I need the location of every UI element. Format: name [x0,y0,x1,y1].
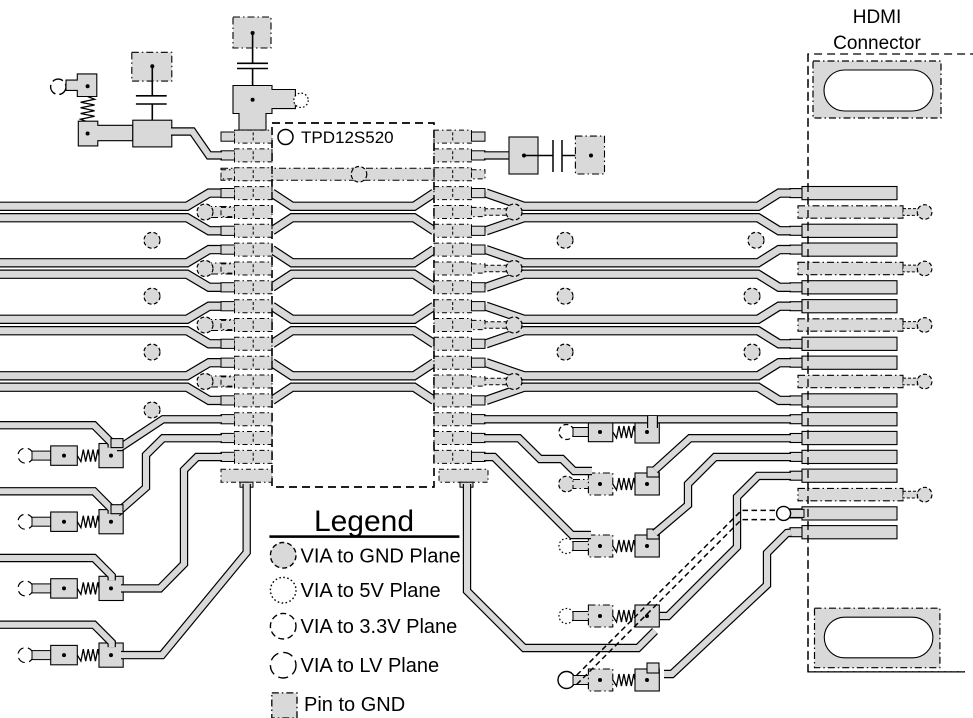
capacitor C1 top pad (to GND) [132,52,172,81]
pad step net2 [647,467,659,477]
wire diff pair 3 left P [0,306,221,319]
wire diff pair 3 inside IC P [272,306,434,319]
pin row 14 right [434,394,485,407]
pad bar GND pair 4 right [484,378,508,385]
wire IC row15 to HDMI pin13 [484,415,791,423]
resistor net 3 [613,540,635,552]
wire diff pair 1 left N [0,218,221,231]
wire diff pair 2 right P [486,250,791,263]
wire via to pad net 5 [573,676,592,685]
via GND stitch [744,288,760,304]
HDMI pin 10 pad [790,356,897,369]
via HDMI pin 2 [917,205,932,220]
pin row 6 left [221,243,272,256]
resistor net 1 left pad [588,422,612,441]
wire diff pair 3 inside IC N [272,331,434,344]
via GND pair 2 right funnel [506,261,522,277]
wire diff pair 2 inside IC P [272,250,434,263]
pin row 13 right [434,375,485,388]
wire diff pair 4 left P [0,363,221,376]
pad step net3 [647,529,659,539]
svg-text:HDMI: HDMI [853,7,902,28]
capacitor C3 right pad (to GND) [575,136,604,174]
resistor net 3 right pad [635,535,659,557]
pad bar GND pair 1 left [205,207,235,218]
resistor net C left pad [51,579,78,598]
via LV net D [18,648,33,663]
via GND stitch [144,232,160,248]
pin row 9 right [434,300,485,313]
wire net5 to HDMI pin19 [664,533,791,674]
pin row 5 left [221,224,272,237]
wire diff pair 4 left N [0,387,221,400]
resistor net B right pad [99,510,123,534]
legend item VIA to 5V Plane [270,577,440,603]
HDMI pin 13 pad [790,413,897,426]
wire via to pad net A [32,451,51,460]
HDMI pin 5 pad (to via) [798,262,918,274]
pin row 7 right [434,262,485,275]
resistor net 4 [613,610,635,622]
via GND stitch [744,344,760,360]
wire diff pair 3 left N [0,331,221,344]
resistor net D left pad [51,645,78,664]
HDMI connector outline overlay [808,54,965,672]
pad bar GND pair 3 left [205,320,235,331]
resistor net D right pad [99,643,123,667]
pin row 8 left [221,281,272,294]
HDMI connector outline [808,54,973,672]
HDMI pin 6 pad [790,281,897,294]
legend title [269,505,459,538]
pad bar GND row2 across IC [221,168,471,180]
legend item VIA to 3.3V Plane [270,613,457,639]
wire net1 to pin13 line [647,416,658,428]
resistor net 4 left pad [588,605,612,627]
resistor net 4 right pad [635,605,659,627]
pin row 12 right [434,356,485,369]
pad bar GND pair 3 right [484,322,508,329]
pin row 9 left [221,300,272,313]
wire diff pair 4 inside IC N [272,387,434,400]
pin row 2 left [221,168,272,181]
resistor net 5 right pad [635,669,659,691]
wire IC row16 to net2 [484,438,592,471]
resistor net 5 left pad [588,669,612,691]
via LV net B [18,514,33,529]
wire net2 to HDMI pin14 [655,438,791,470]
HDMI pin 17 pad (to via) [798,488,918,500]
wire net C to pin row17 [121,457,222,588]
resistor net A [77,450,99,462]
pad bar GND pair 2 left [205,263,235,274]
via GND pair 1 left funnel [197,204,213,220]
wire via to pad net 2 [573,480,592,489]
pin row 18 right (wide GND bar) [439,469,488,487]
wire left edge to net B [0,491,112,513]
capacitor C2 [237,33,268,100]
pin row 7 left [221,262,272,275]
via GND stitch [144,344,160,360]
HDMI pin 12 pad [790,394,897,407]
wire left edge to net D [0,625,112,647]
resistor net B [77,516,99,528]
via 3.3V net 1 [559,425,574,440]
resistor net D [77,649,99,661]
via GND stitch [144,288,160,304]
wire via to pad net B [32,517,51,526]
pin row 3 left [221,187,272,200]
wire diff pair 1 inside IC N [272,218,434,231]
resistor net 2 [613,478,635,490]
pin row 4 left [221,206,272,219]
legend item Pin to GND [272,693,405,718]
HDMI pin 18 pad [790,507,897,520]
via LV net C [18,581,33,596]
svg-text:Connector: Connector [833,33,921,54]
pin row 0 right [434,130,485,143]
wire via to pad net 3 [573,542,592,551]
wire diff pair 2 left N [0,274,221,287]
pin row 1 left [221,149,272,162]
resistor net C [77,582,99,594]
svg-text:TPD12S520: TPD12S520 [301,128,394,147]
pin row 11 left [221,337,272,350]
HDMI pin 16 pad [790,469,897,482]
pad bar GND pair 4 left [205,376,235,387]
pin row 1 right [434,149,485,162]
pin row 0 left [221,130,272,143]
capacitor C1 [136,66,167,134]
resistor net B left pad [51,512,78,531]
wire net3 to HDMI pin15 [655,457,791,533]
wire diff pair 4 inside IC P [272,363,434,376]
via GND pair 1 right funnel [506,204,522,220]
pin row 17 left [221,450,272,463]
HDMI pin 2 pad (to via) [798,206,918,218]
pin row 6 right [434,243,485,256]
via HDMI pin 17 [917,487,932,502]
wire row1 to C3 [484,151,512,159]
pad bar GND pair 2 right [484,265,508,272]
via GND pair 2 left funnel [197,261,213,277]
HDMI pin 15 pad [790,450,897,463]
pin row 3 right [434,187,485,200]
svg-text:VIA to 5V Plane: VIA to 5V Plane [301,580,441,602]
pin row 16 right [434,432,485,445]
pad step net A [111,439,123,448]
svg-text:VIA to LV Plane: VIA to LV Plane [301,655,440,677]
via HDMI pin18 [777,506,791,520]
dashed net tie lines [575,510,775,686]
legend item VIA to LV Plane [270,652,439,678]
via GND stitch [557,344,573,360]
wire diff pair 2 left P [0,250,221,263]
wire neck via to pin18 [790,509,804,517]
resistor net 1 right pad [635,421,659,443]
resistor net 3 left pad [588,535,612,557]
wire diff pair 1 left P [0,193,221,206]
pad step net5 [647,663,659,673]
pin row 12 left [221,356,272,369]
pad bar GND pair 1 right [484,209,508,216]
HDMI pin 1 pad [790,187,897,200]
capacitor C3 [524,140,591,172]
HDMI pin 8 pad (to via) [798,319,918,331]
wire via to pad net D [32,651,51,660]
wire via to pad net 1 [573,428,592,437]
wire C1 pad to pin row1 [171,132,222,156]
via GND stitch [748,232,764,248]
wire left edge to net C [0,558,112,580]
pad block C2 bottom [233,86,295,131]
via HDMI pin 8 [917,318,932,333]
op-amp U1 outline overlay [272,123,434,487]
svg-text:Pin to GND: Pin to GND [304,694,405,716]
wire diff pair 1 right N [486,218,791,231]
wire net4 to HDMI pin16 [660,476,791,616]
wire diff pair 4 right N [486,387,791,400]
pin row 2 right [434,168,485,181]
pin row 8 right [434,281,485,294]
via LV net A [18,448,33,463]
wire diff pair 4 right P [486,363,791,376]
svg-text:Legend: Legend [314,505,414,538]
op-amp U1 TPD12S520 body [272,123,434,487]
resistor net 1 [613,426,635,438]
pin row 11 right [434,337,485,350]
pin row 16 left [221,432,272,445]
wire diff pair 3 right N [486,331,791,344]
resistor R1 [81,97,95,123]
wire via to pad net 4 [573,612,592,621]
wire left edge to net A [0,425,112,447]
mounting hole pad bottom [815,608,940,668]
resistor net A left pad [51,446,78,465]
via GND pair 3 left funnel [197,317,213,333]
wire diff pair 2 right N [486,274,791,287]
via HDMI pin 5 [917,261,932,276]
via GND pair 4 left funnel [197,374,213,390]
via GND pair 3 right funnel [506,317,522,333]
via HDMI pin 11 [917,374,932,389]
pin row 15 left [221,413,272,426]
wire diff pair 2 inside IC N [272,274,434,287]
pin row 17 right [434,450,485,463]
wire net B to pin row16 [117,438,222,513]
HDMI pin 9 pad [790,337,897,350]
resistor net 2 left pad [588,473,612,495]
HDMI pin 7 pad [790,300,897,313]
capacitor C2 top pad (to GND) [233,17,271,48]
capacitor C1 bottom pad [133,120,172,147]
resistor net 2 right pad [635,473,659,495]
via net 5 [558,672,575,689]
pin row 10 right [434,319,485,332]
pad step net B [111,505,123,514]
capacitor C3 left pad [509,137,538,174]
wire diff pair 3 right P [486,306,791,319]
via 5V cluster3 [294,93,308,107]
pin row 4 right [434,206,485,219]
via 5V net 3 [559,539,574,554]
via GND stitch [144,402,160,418]
wire via to pad net C [32,584,51,593]
HDMI pin 11 pad (to via) [798,375,918,387]
via GND stitch [557,232,573,248]
via 5V net 4 [559,609,574,624]
pin row 10 left [221,319,272,332]
wire diff pair 1 inside IC P [272,193,434,206]
wire IC row17 to net3 [484,457,591,535]
via LV top-left [51,79,66,94]
wire net A to pin row15 [117,419,222,447]
pin row 5 right [434,224,485,237]
legend item VIA to GND Plane [270,543,460,569]
HDMI pin 3 pad [790,224,897,237]
wire diff pair 1 right P [486,193,791,206]
pin row 15 right [434,413,485,426]
HDMI pin 14 pad [790,431,897,444]
wire net D to pin row18 stub [121,484,247,655]
pin row 14 left [221,394,272,407]
resistor net A right pad [99,444,123,468]
pin row 18 left (wide GND bar) [221,469,272,487]
via GND center row2 [351,167,367,183]
pin row 13 left [221,375,272,388]
resistor R1 bottom pad / GND trace bar [78,121,133,146]
wire IC row18 stub to net4 [467,484,655,648]
resistor R1 top pad [66,74,97,97]
svg-text:VIA to GND Plane: VIA to GND Plane [301,545,461,567]
via GND net 2 [559,476,575,492]
resistor net C right pad [99,576,123,600]
svg-text:VIA to 3.3V Plane: VIA to 3.3V Plane [301,616,458,638]
mounting hole pad top [813,61,941,118]
via GND pair 4 right funnel [506,374,522,390]
HDMI Connector label [833,7,921,54]
resistor net 5 [613,674,635,686]
HDMI pin 4 pad [790,243,897,256]
via GND stitch [557,288,573,304]
HDMI pin 19 pad [790,526,897,539]
